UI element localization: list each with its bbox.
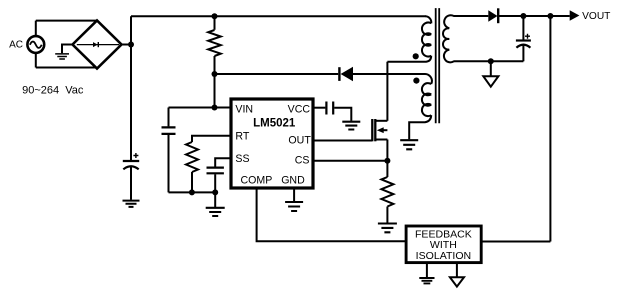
svg-text:RT: RT xyxy=(235,131,249,143)
svg-text:AC: AC xyxy=(9,40,23,51)
svg-text:90~264: 90~264 xyxy=(22,85,59,97)
svg-text:CS: CS xyxy=(295,155,310,167)
svg-text:ISOLATION: ISOLATION xyxy=(416,250,471,262)
svg-text:COMP: COMP xyxy=(241,174,273,186)
svg-text:SS: SS xyxy=(235,153,249,165)
svg-text:VOUT: VOUT xyxy=(582,11,610,22)
svg-text:VCC: VCC xyxy=(288,104,311,116)
svg-text:GND: GND xyxy=(281,174,305,186)
svg-text:VIN: VIN xyxy=(235,104,253,116)
svg-text:LM5021: LM5021 xyxy=(253,118,296,130)
svg-text:OUT: OUT xyxy=(288,134,311,146)
svg-text:Vac: Vac xyxy=(65,85,84,97)
